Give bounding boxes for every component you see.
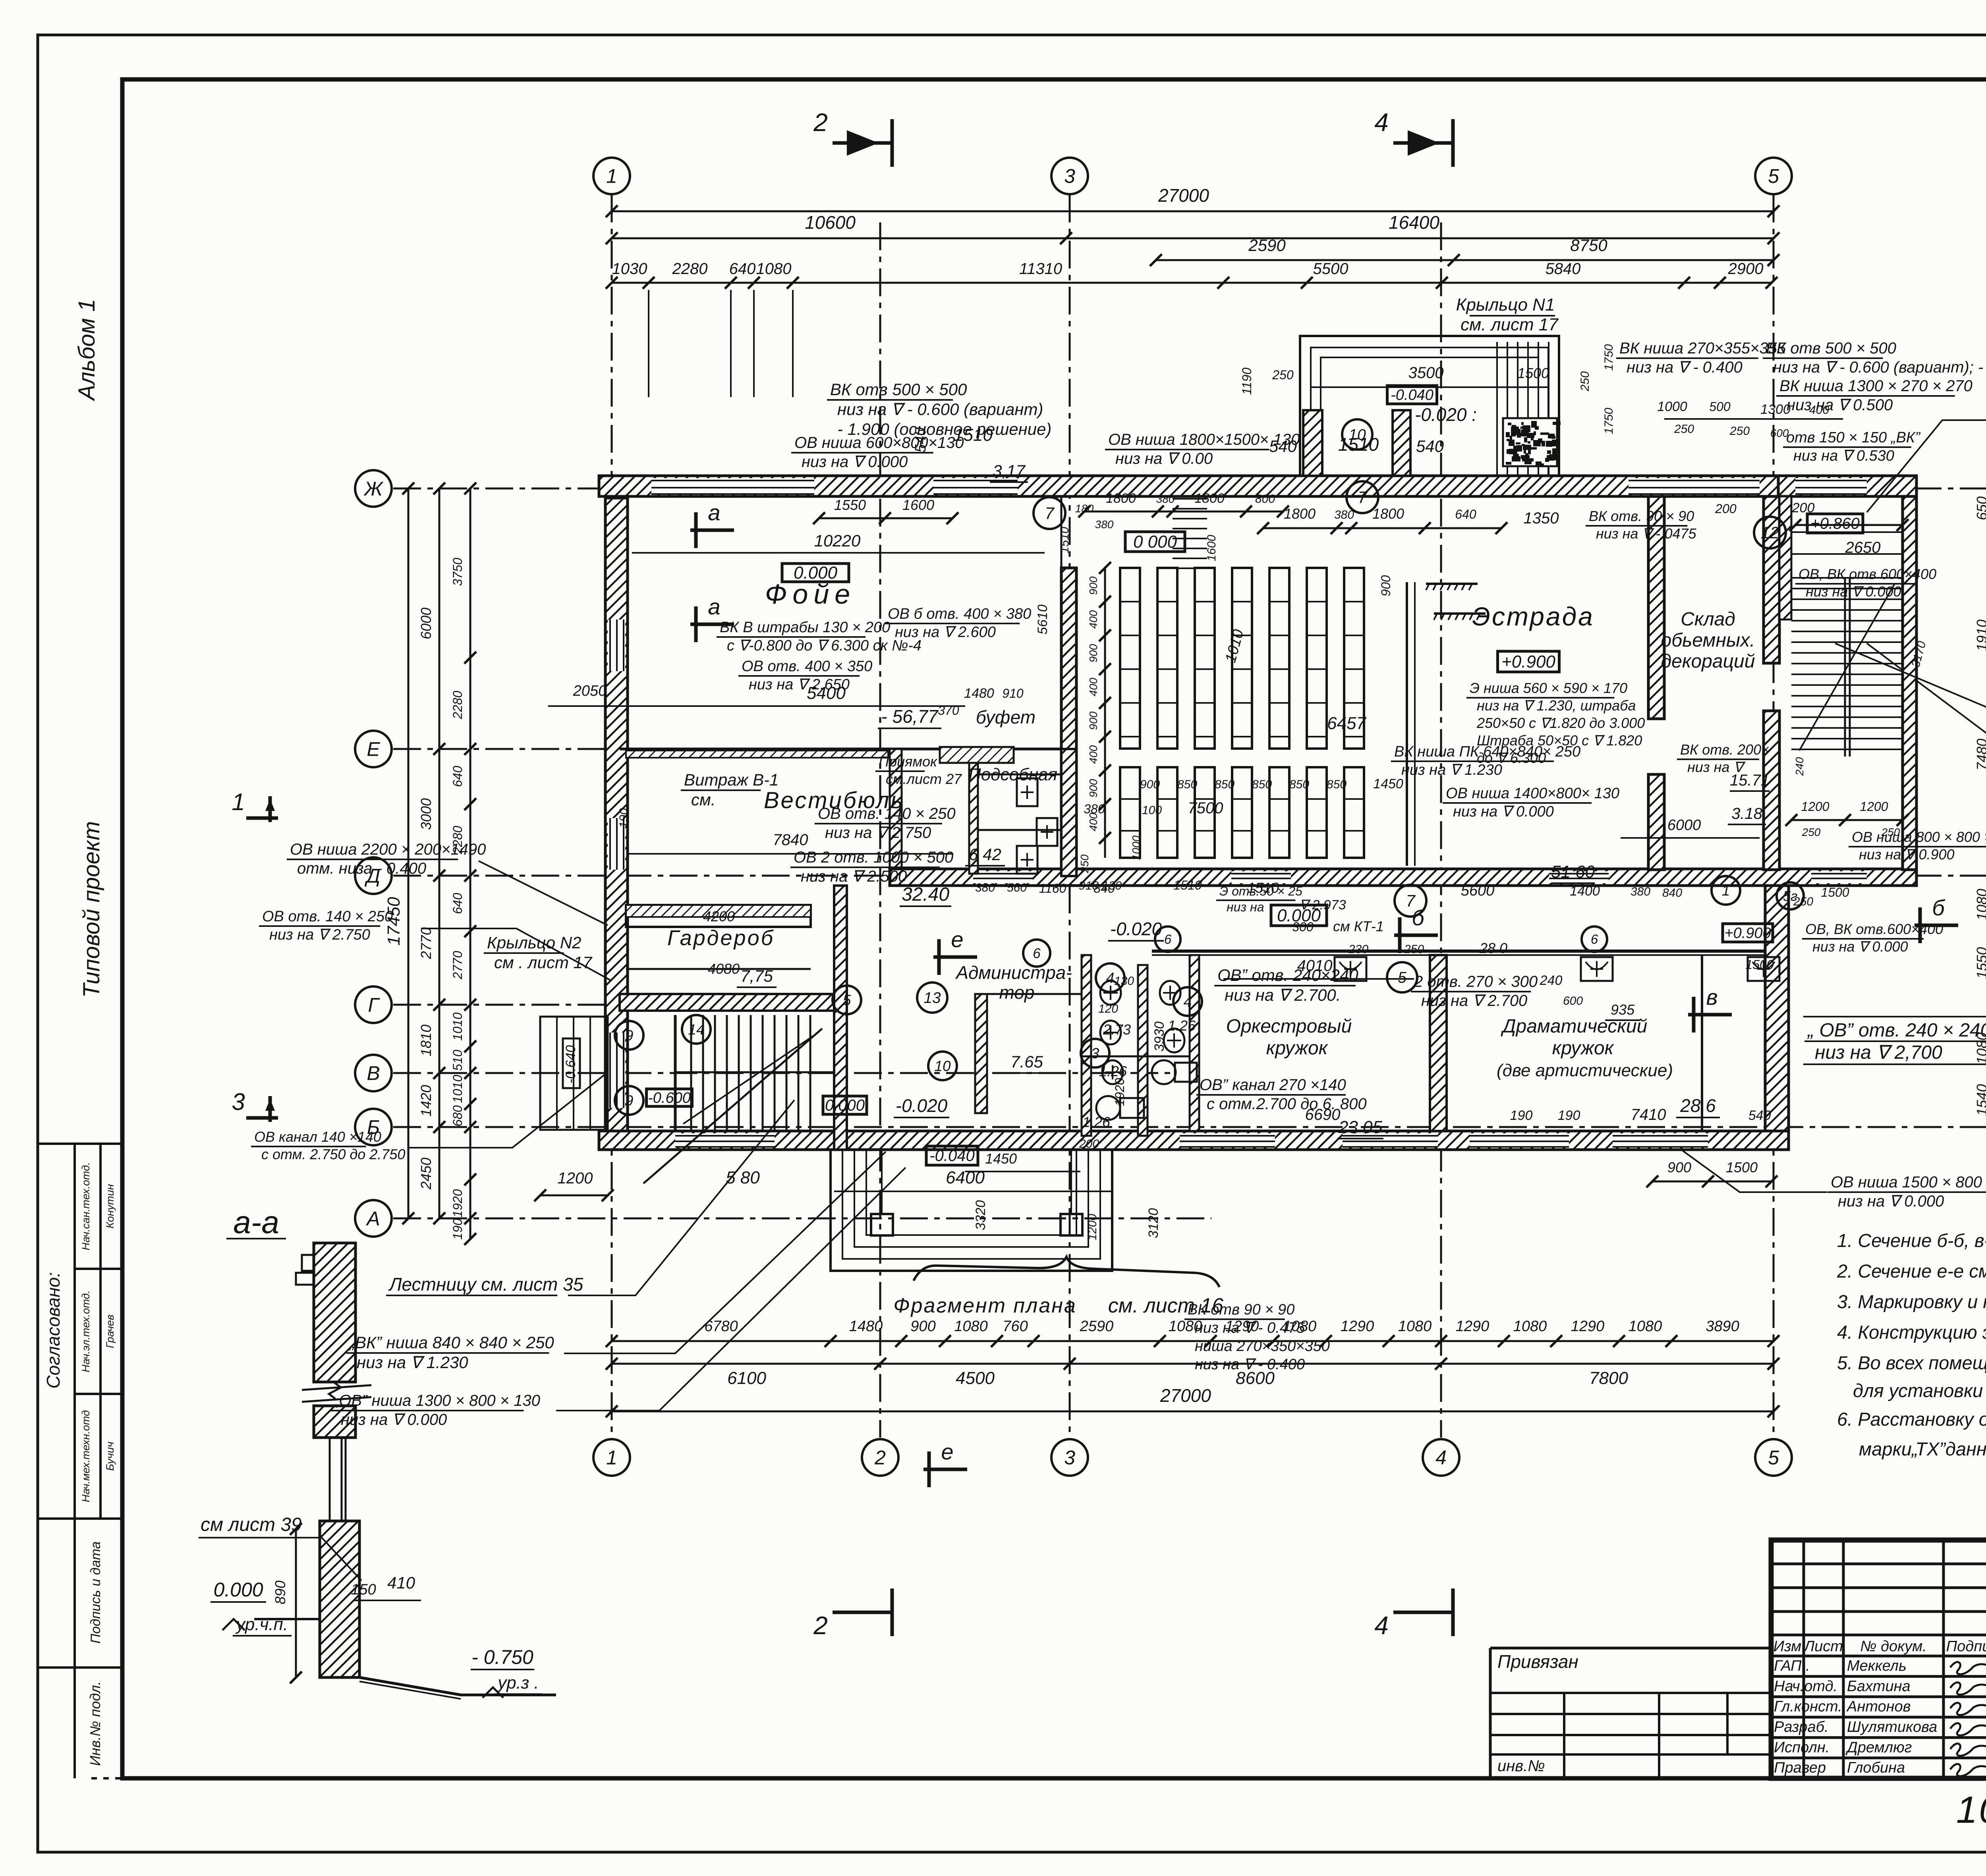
svg-text:ниша 270×350×350: ниша 270×350×350 — [1195, 1338, 1330, 1355]
svg-text:низ на ∇ 0.530: низ на ∇ 0.530 — [1793, 448, 1894, 464]
svg-text:низ на ∇ - 0.400: низ на ∇ - 0.400 — [1627, 359, 1743, 376]
svg-text:1200: 1200 — [1860, 799, 1888, 814]
svg-text:510: 510 — [450, 1050, 465, 1071]
svg-text:Типовой проект: Типовой проект — [79, 821, 104, 998]
svg-text:850: 850 — [1327, 778, 1347, 791]
svg-text:1190: 1190 — [1240, 367, 1254, 395]
svg-text:низ на ∇ - 0.600 (вариант); -: низ на ∇ - 0.600 (вариант); - 1.900 (осн… — [1773, 359, 1986, 376]
svg-text:Бучич: Бучич — [104, 1442, 116, 1471]
svg-text:800: 800 — [1255, 492, 1275, 506]
svg-text:3.18: 3.18 — [1731, 805, 1763, 822]
svg-text:1000: 1000 — [1657, 399, 1687, 414]
svg-text:Г: Г — [368, 994, 380, 1016]
svg-text:3890: 3890 — [1706, 1318, 1739, 1335]
svg-text:840: 840 — [1093, 881, 1115, 896]
svg-text:9: 9 — [625, 1027, 634, 1044]
svg-text:Е: Е — [367, 738, 380, 760]
svg-text:1540: 1540 — [1974, 1084, 1986, 1116]
svg-text:а: а — [708, 594, 720, 619]
svg-text:1400: 1400 — [1570, 884, 1600, 899]
svg-text:Дремлюг: Дремлюг — [1845, 1739, 1912, 1756]
svg-text:410: 410 — [387, 1573, 415, 1592]
svg-text:900: 900 — [1087, 644, 1099, 662]
svg-text:4: 4 — [1374, 108, 1389, 137]
svg-text:1420: 1420 — [418, 1085, 434, 1117]
svg-text:0.000: 0.000 — [825, 1097, 865, 1114]
svg-text:Нач.отд.: Нач.отд. — [1774, 1678, 1837, 1695]
svg-text:Приямок: Приямок — [879, 753, 938, 770]
svg-text:6: 6 — [1033, 946, 1041, 961]
svg-text:ур.з .: ур.з . — [496, 1673, 539, 1693]
svg-text:250: 250 — [1674, 423, 1694, 436]
svg-text:тор: тор — [999, 982, 1035, 1003]
svg-text:240: 240 — [1540, 973, 1563, 988]
svg-text:640: 640 — [729, 260, 756, 278]
svg-text:640: 640 — [450, 766, 465, 787]
svg-text:1030: 1030 — [612, 260, 647, 278]
svg-text:3930: 3930 — [1152, 1021, 1167, 1052]
svg-text:ОВ отв. 400 × 350: ОВ отв. 400 × 350 — [742, 658, 872, 675]
svg-text:низ на ∇ 0.900: низ на ∇ 0.900 — [1859, 846, 1955, 863]
svg-text:Крыльцо N1: Крыльцо N1 — [1456, 295, 1555, 315]
svg-text:1800: 1800 — [1284, 506, 1316, 522]
svg-text:Фойе: Фойе — [765, 579, 856, 610]
svg-text:1480: 1480 — [964, 686, 994, 701]
svg-text:1480: 1480 — [849, 1318, 883, 1335]
svg-text:13: 13 — [923, 990, 941, 1007]
svg-text:5600: 5600 — [1461, 882, 1495, 899]
svg-text:+0.900: +0.900 — [1501, 652, 1555, 672]
svg-text:1510: 1510 — [1058, 527, 1071, 553]
svg-text:1099-01: 1099-01 — [1956, 1789, 1986, 1831]
svg-text:Правер: Правер — [1774, 1760, 1826, 1776]
svg-text:низ на ∇ 2.500: низ на ∇ 2.500 — [801, 868, 907, 885]
svg-text:10220: 10220 — [814, 531, 861, 550]
svg-text:1.26: 1.26 — [1082, 1114, 1111, 1130]
svg-text:инв.№: инв.№ — [1497, 1757, 1545, 1775]
svg-text:180: 180 — [1075, 502, 1094, 515]
svg-text:380: 380 — [975, 881, 995, 894]
svg-text:3000: 3000 — [418, 798, 434, 830]
svg-text:низ на ∇ 2.750: низ на ∇ 2.750 — [825, 824, 931, 841]
svg-text:760: 760 — [1003, 1318, 1028, 1335]
svg-text:1: 1 — [606, 165, 617, 187]
svg-text:В: В — [367, 1062, 380, 1085]
svg-text:250: 250 — [1793, 895, 1813, 908]
svg-text:Меккель: Меккель — [1847, 1658, 1907, 1674]
svg-text:Исполн.: Исполн. — [1774, 1739, 1830, 1756]
svg-text:840: 840 — [1662, 886, 1682, 899]
svg-text:16400: 16400 — [1389, 212, 1439, 233]
svg-text:2 отв. 270 × 300: 2 отв. 270 × 300 — [1414, 973, 1538, 990]
svg-text:низ на ∇ - 0.400: низ на ∇ - 0.400 — [1195, 1356, 1305, 1373]
svg-text:Склад: Склад — [1681, 609, 1735, 630]
svg-text:1600: 1600 — [1205, 535, 1218, 561]
svg-text:7800: 7800 — [1589, 1368, 1628, 1388]
svg-text:буфет: буфет — [976, 707, 1036, 728]
svg-text:6457: 6457 — [1327, 714, 1366, 733]
svg-text:1550: 1550 — [1974, 947, 1986, 979]
svg-text:2050: 2050 — [573, 683, 607, 699]
svg-text:540: 540 — [1416, 437, 1444, 455]
svg-text:∇ 2.973: ∇ 2.973 — [1299, 897, 1346, 913]
svg-text:Подсобная: Подсобная — [968, 765, 1057, 784]
svg-text:1800: 1800 — [1194, 491, 1225, 506]
svg-text:4: 4 — [1435, 1447, 1447, 1469]
svg-text:5610: 5610 — [1035, 604, 1050, 635]
svg-text:-0.020 :: -0.020 : — [1415, 404, 1477, 425]
svg-text:низ на ∇ 1.230: низ на ∇ 1.230 — [1401, 762, 1502, 778]
svg-text:Бахтина: Бахтина — [1847, 1678, 1911, 1695]
svg-text:Эстрада: Эстрада — [1472, 602, 1594, 631]
svg-text:низ на ∇ - 0.475: низ на ∇ - 0.475 — [1195, 1320, 1305, 1336]
svg-text:а: а — [708, 500, 720, 525]
svg-text:250: 250 — [1404, 943, 1424, 956]
svg-text:230: 230 — [1348, 943, 1368, 956]
svg-text:900: 900 — [910, 1318, 935, 1335]
svg-text:1.26: 1.26 — [1168, 1017, 1196, 1034]
svg-text:ОВ б отв. 400 × 380: ОВ б отв. 400 × 380 — [888, 606, 1031, 622]
svg-text:1: 1 — [232, 789, 245, 815]
svg-text:32.40: 32.40 — [902, 884, 949, 905]
svg-text:2590: 2590 — [1248, 236, 1286, 255]
svg-text:560: 560 — [1007, 881, 1027, 894]
svg-text:низ на ∇ 1.230: низ на ∇ 1.230 — [357, 1353, 468, 1372]
svg-text:-0.020: -0.020 — [896, 1095, 948, 1116]
svg-text:650: 650 — [1974, 496, 1986, 520]
svg-text:1080: 1080 — [1629, 1318, 1662, 1335]
svg-text:Лестницу см. лист 35: Лестницу см. лист 35 — [388, 1274, 583, 1295]
svg-text:850: 850 — [1177, 778, 1197, 791]
svg-text:1. Сечение б-б, в-в см. лист: 1. Сечение б-б, в-в см. лист 17 — [1837, 1230, 1986, 1251]
svg-text:5 80: 5 80 — [726, 1168, 760, 1187]
svg-text:ВК отв 500 × 500: ВК отв 500 × 500 — [830, 380, 967, 399]
svg-text:Конутин: Конутин — [104, 1184, 116, 1229]
svg-text:1: 1 — [606, 1447, 617, 1469]
svg-text:Нач.мех.техн.отд: Нач.мех.техн.отд — [80, 1410, 92, 1502]
svg-text:300: 300 — [1292, 920, 1314, 934]
svg-text:2: 2 — [813, 108, 828, 137]
svg-text:отв 150 × 150 „ВК”: отв 150 × 150 „ВК” — [1786, 429, 1921, 446]
svg-text:2650: 2650 — [1845, 539, 1881, 556]
svg-text:5: 5 — [1768, 165, 1779, 187]
svg-text:2. Сечение е-е см. лист 16: 2. Сечение е-е см. лист 16 — [1837, 1260, 1986, 1282]
svg-text:1510: 1510 — [1173, 878, 1202, 892]
svg-text:1080: 1080 — [1974, 889, 1986, 921]
svg-text:-0.600: -0.600 — [648, 1090, 691, 1106]
svg-text:1450: 1450 — [1373, 776, 1403, 791]
svg-text:200: 200 — [1079, 1137, 1099, 1150]
svg-text:Лист: Лист — [1803, 1638, 1843, 1655]
svg-text:900: 900 — [1140, 778, 1160, 791]
svg-text:12: 12 — [1761, 523, 1779, 542]
svg-text:марки„ТХ”данного альбома.: марки„ТХ”данного альбома. — [1859, 1438, 1986, 1459]
svg-text:Грачев: Грачев — [104, 1314, 116, 1348]
svg-text:декораций: декораций — [1661, 651, 1755, 672]
svg-text:1500: 1500 — [1517, 365, 1549, 381]
svg-text:1750: 1750 — [1602, 407, 1615, 434]
svg-text:600: 600 — [1770, 427, 1789, 439]
svg-text:5500: 5500 — [1313, 260, 1348, 278]
svg-text:250: 250 — [1078, 854, 1091, 873]
svg-text:4010: 4010 — [1297, 957, 1333, 975]
svg-text:Администра-: Администра- — [955, 962, 1072, 983]
svg-text:5400: 5400 — [807, 683, 846, 703]
svg-text:обьемных.: обьемных. — [1661, 630, 1755, 651]
svg-text:10: 10 — [1348, 427, 1366, 444]
svg-text:100: 100 — [1142, 804, 1162, 817]
svg-text:Разраб.: Разраб. — [1774, 1719, 1829, 1735]
svg-text:380: 380 — [1631, 885, 1650, 898]
svg-text:7.65: 7.65 — [1010, 1052, 1043, 1071]
svg-text:в: в — [1706, 984, 1717, 1009]
svg-text:Нач.эл.тех.отд.: Нач.эл.тех.отд. — [80, 1290, 92, 1372]
svg-text:0.000: 0.000 — [213, 1579, 263, 1601]
svg-text:ВК отв. 200×: ВК отв. 200× — [1680, 741, 1770, 758]
svg-text:2770: 2770 — [418, 927, 434, 959]
svg-text:ОВ ниша 600×800×130: ОВ ниша 600×800×130 — [794, 434, 964, 452]
svg-text:1200: 1200 — [558, 1170, 593, 1187]
svg-text:1500: 1500 — [1745, 957, 1773, 972]
svg-text:А: А — [365, 1208, 380, 1230]
svg-text:3500: 3500 — [1408, 364, 1444, 382]
svg-text:4: 4 — [1184, 994, 1192, 1010]
svg-text:„ ОВ” отв. 240 × 240: „ ОВ” отв. 240 × 240 — [1807, 1020, 1986, 1041]
svg-text:+0.860: +0.860 — [1810, 515, 1859, 533]
svg-text:10600: 10600 — [805, 212, 856, 233]
svg-text:ОВ канал 140 ×140: ОВ канал 140 ×140 — [254, 1129, 381, 1145]
svg-text:ВК отв. 90 × 90: ВК отв. 90 × 90 — [1589, 508, 1694, 524]
svg-text:1750: 1750 — [1602, 344, 1615, 371]
svg-text:см. лист 17: см. лист 17 — [1461, 315, 1559, 334]
svg-text:400: 400 — [1809, 403, 1829, 417]
svg-text:850: 850 — [1289, 778, 1309, 791]
svg-text:190: 190 — [617, 808, 630, 828]
svg-text:1450: 1450 — [985, 1150, 1017, 1167]
svg-text:190: 190 — [1558, 1108, 1580, 1123]
svg-text:Инв.№ подл.: Инв.№ подл. — [87, 1681, 103, 1766]
svg-text:с отм.2.700 до 6. 800: с отм.2.700 до 6. 800 — [1207, 1095, 1367, 1113]
svg-text:низ на ∇ 0.500: низ на ∇ 0.500 — [1787, 396, 1893, 414]
svg-text:3: 3 — [1064, 165, 1075, 187]
svg-text:Ж: Ж — [363, 478, 384, 500]
svg-text:7840: 7840 — [773, 831, 808, 849]
svg-text:ОВ, ВК отв 600×400: ОВ, ВК отв 600×400 — [1799, 566, 1936, 582]
svg-text:2280: 2280 — [450, 691, 465, 719]
svg-text:150: 150 — [351, 1581, 376, 1598]
svg-text:27000: 27000 — [1158, 185, 1209, 206]
svg-text:ВК ниша ПК 640×840× 250: ВК ниша ПК 640×840× 250 — [1394, 743, 1580, 760]
svg-text:е: е — [941, 1439, 953, 1464]
svg-text:низ на ∇ 2.700.: низ на ∇ 2.700. — [1225, 986, 1341, 1004]
svg-text:0 000: 0 000 — [1133, 532, 1177, 552]
svg-text:3: 3 — [232, 1089, 245, 1115]
svg-text:см.лист 27: см.лист 27 — [886, 771, 962, 787]
svg-text:отм. низа - 0.400: отм. низа - 0.400 — [297, 860, 426, 877]
svg-text:Подпись: Подпись — [1946, 1638, 1986, 1655]
svg-text:ОВ ниша 2200 × 200×1490: ОВ ниша 2200 × 200×1490 — [290, 841, 486, 858]
svg-text:900: 900 — [1667, 1159, 1691, 1175]
svg-text:7,75: 7,75 — [740, 967, 773, 985]
svg-text:б: б — [1412, 905, 1425, 930]
svg-text:5. Во всех помещениях под окна: 5. Во всех помещениях под окнами предусм… — [1837, 1352, 1986, 1373]
svg-text:250: 250 — [1578, 371, 1592, 392]
svg-text:ур.ч.п.: ур.ч.п. — [235, 1615, 288, 1634]
svg-text:Антонов: Антонов — [1846, 1698, 1911, 1715]
svg-text:200: 200 — [1715, 502, 1737, 516]
svg-text:Витраж В-1: Витраж В-1 — [684, 770, 779, 789]
svg-text:900: 900 — [1087, 576, 1099, 595]
svg-text:1350: 1350 — [1524, 510, 1559, 527]
svg-text:Подпись и дата: Подпись и дата — [88, 1541, 103, 1643]
svg-text:кружок: кружок — [1552, 1038, 1615, 1059]
svg-text:7480: 7480 — [1974, 739, 1986, 770]
svg-text:7500: 7500 — [1188, 799, 1223, 817]
svg-text:1600: 1600 — [902, 497, 934, 513]
svg-text:3750: 3750 — [450, 558, 465, 586]
svg-text:250: 250 — [1272, 368, 1294, 382]
svg-text:1: 1 — [1722, 882, 1730, 899]
svg-text:для установки отопительных при: для установки отопительных приборов ст.с… — [1853, 1380, 1986, 1401]
svg-text:-0.040: -0.040 — [929, 1147, 974, 1165]
svg-text:низ на ∇ - 0475: низ на ∇ - 0475 — [1596, 525, 1697, 542]
svg-text:ОВ ниша 1500 × 800 × 130: ОВ ниша 1500 × 800 × 130 — [1831, 1173, 1986, 1191]
svg-text:23 05: 23 05 — [1338, 1117, 1383, 1137]
svg-text:е: е — [951, 927, 963, 952]
svg-text:Крыльцо N2: Крыльцо N2 — [487, 933, 582, 952]
svg-text:ОВ отв. 140 × 250: ОВ отв. 140 × 250 — [818, 805, 956, 822]
svg-text:Драматический: Драматический — [1501, 1016, 1648, 1037]
svg-text:ОВ 2 отв. 1000 × 500: ОВ 2 отв. 1000 × 500 — [794, 849, 953, 866]
svg-text:№ докум.: № докум. — [1860, 1638, 1926, 1655]
svg-text:1290: 1290 — [1456, 1318, 1489, 1335]
svg-text:540: 540 — [1748, 1108, 1771, 1123]
svg-text:низ на: низ на — [1227, 900, 1264, 914]
svg-text:ОВ отв. 140 × 250: ОВ отв. 140 × 250 — [262, 908, 393, 925]
svg-text:Оркестровый: Оркестровый — [1226, 1016, 1352, 1037]
svg-text:8750: 8750 — [1570, 236, 1607, 255]
svg-text:250: 250 — [1802, 826, 1821, 838]
svg-text:с отм. 2.750 до 2.750: с отм. 2.750 до 2.750 — [261, 1146, 405, 1162]
svg-text:850: 850 — [1252, 778, 1272, 791]
svg-text:1810: 1810 — [418, 1025, 434, 1056]
svg-text:250: 250 — [1729, 425, 1750, 438]
svg-text:6000: 6000 — [1667, 817, 1701, 834]
svg-text:низ на ∇ 2.600: низ на ∇ 2.600 — [895, 624, 996, 641]
svg-text:с ∇-0.800 до ∇ 6.300 ск №-4: с ∇-0.800 до ∇ 6.300 ск №-4 — [727, 637, 922, 654]
svg-text:400: 400 — [1087, 610, 1099, 629]
svg-text:10: 10 — [934, 1058, 951, 1074]
svg-text:Фрагмент плана: Фрагмент плана — [893, 1294, 1077, 1317]
svg-text:3: 3 — [1064, 1447, 1075, 1469]
svg-text:-0.640: -0.640 — [563, 1045, 578, 1083]
svg-text:- 0.750: - 0.750 — [471, 1646, 533, 1668]
svg-text:низ на ∇ 2,700: низ на ∇ 2,700 — [1815, 1042, 1942, 1063]
svg-text:6690: 6690 — [1305, 1106, 1341, 1123]
svg-text:ВК ниша 270×355×355: ВК ниша 270×355×355 — [1619, 340, 1786, 357]
svg-text:ГАП .: ГАП . — [1774, 1658, 1810, 1674]
svg-text:380: 380 — [1156, 493, 1175, 505]
svg-text:6: 6 — [1591, 932, 1598, 947]
svg-text:1080: 1080 — [1398, 1318, 1432, 1335]
svg-text:200: 200 — [1792, 500, 1815, 515]
svg-text:низ на ∇ 1.230, штраба: низ на ∇ 1.230, штраба — [1477, 697, 1636, 714]
svg-text:Альбом 1: Альбом 1 — [74, 299, 100, 401]
svg-text:380: 380 — [1095, 518, 1114, 531]
svg-text:130: 130 — [1114, 975, 1134, 988]
svg-text:27000: 27000 — [1160, 1385, 1211, 1406]
svg-text:1080: 1080 — [954, 1318, 988, 1335]
svg-text:Нач.сан.тех.отд.: Нач.сан.тех.отд. — [80, 1162, 92, 1250]
svg-text:5: 5 — [843, 992, 851, 1008]
svg-text:2450: 2450 — [418, 1158, 434, 1190]
svg-text:2.73: 2.73 — [1103, 1021, 1131, 1038]
svg-text:ОВ” отв. 240×240: ОВ” отв. 240×240 — [1217, 966, 1358, 984]
svg-text:1290: 1290 — [1341, 1318, 1374, 1335]
svg-text:5: 5 — [1768, 1447, 1779, 1469]
svg-text:+0.900: +0.900 — [1724, 925, 1771, 942]
svg-text:3: 3 — [1091, 1045, 1099, 1062]
svg-text:500: 500 — [1709, 400, 1731, 414]
svg-text:640: 640 — [1455, 507, 1476, 521]
svg-text:- 56,77: - 56,77 — [881, 706, 939, 727]
svg-text:ОВ” канал 270 ×140: ОВ” канал 270 ×140 — [1200, 1076, 1346, 1094]
svg-text:низ на ∇ 0.000: низ на ∇ 0.000 — [1838, 1193, 1944, 1210]
svg-text:1800: 1800 — [1106, 491, 1136, 506]
svg-text:1550: 1550 — [834, 497, 866, 513]
svg-text:1010: 1010 — [450, 1012, 465, 1040]
svg-text:низ на ∇ 2.700: низ на ∇ 2.700 — [1421, 992, 1527, 1009]
svg-text:1200: 1200 — [1086, 1214, 1099, 1240]
svg-text:11310: 11310 — [1019, 260, 1062, 278]
svg-text:2: 2 — [813, 1611, 828, 1640]
svg-text:250×50 с ∇1.820 до 3.000: 250×50 с ∇1.820 до 3.000 — [1476, 715, 1645, 731]
svg-text:0.000: 0.000 — [794, 563, 838, 583]
svg-text:ВК отв 500 × 500: ВК отв 500 × 500 — [1766, 340, 1896, 357]
svg-text:4500: 4500 — [956, 1368, 995, 1388]
svg-text:Изм: Изм — [1773, 1638, 1801, 1655]
svg-text:6. Расстановку оборудования, у: 6. Расстановку оборудования, устройство … — [1837, 1409, 1986, 1430]
svg-text:4. Конструкцию эстрады ст.: 4. Конструкцию эстрады ст. лист 19 — [1837, 1322, 1986, 1343]
svg-text:1800: 1800 — [1372, 506, 1404, 522]
svg-text:2900: 2900 — [1728, 260, 1764, 278]
svg-text:1010: 1010 — [450, 1075, 465, 1103]
svg-text:а-а: а-а — [233, 1204, 279, 1240]
svg-text:низ на ∇ 0.00: низ на ∇ 0.00 — [1115, 450, 1213, 467]
svg-text:3120: 3120 — [1146, 1208, 1161, 1238]
svg-text:640: 640 — [450, 893, 465, 914]
svg-text:1080: 1080 — [1513, 1318, 1547, 1335]
svg-text:см.: см. — [691, 790, 715, 809]
svg-text:низ на ∇ 0.000: низ на ∇ 0.000 — [1806, 583, 1901, 600]
svg-text:см лист 39: см лист 39 — [201, 1514, 302, 1535]
svg-text:4: 4 — [1374, 1611, 1389, 1640]
svg-text:1290: 1290 — [1571, 1318, 1605, 1335]
svg-text:(две артистические): (две артистические) — [1497, 1061, 1673, 1080]
svg-text:1910: 1910 — [1974, 620, 1986, 651]
svg-text:низ на ∇ 2.750: низ на ∇ 2.750 — [269, 926, 370, 943]
svg-text:250: 250 — [1881, 826, 1900, 838]
svg-text:7: 7 — [1045, 504, 1055, 523]
svg-text:Привязан: Привязан — [1497, 1651, 1578, 1672]
svg-text:3,17: 3,17 — [993, 461, 1026, 480]
svg-text:кружок: кружок — [1266, 1038, 1329, 1059]
svg-text:низ на ∇: низ на ∇ — [1687, 759, 1746, 775]
svg-text:240: 240 — [1793, 757, 1806, 776]
svg-text:3320: 3320 — [973, 1200, 988, 1230]
svg-text:ОВ, ВК отв.600×400: ОВ, ВК отв.600×400 — [1805, 921, 1943, 937]
svg-text:190: 190 — [450, 1218, 465, 1240]
